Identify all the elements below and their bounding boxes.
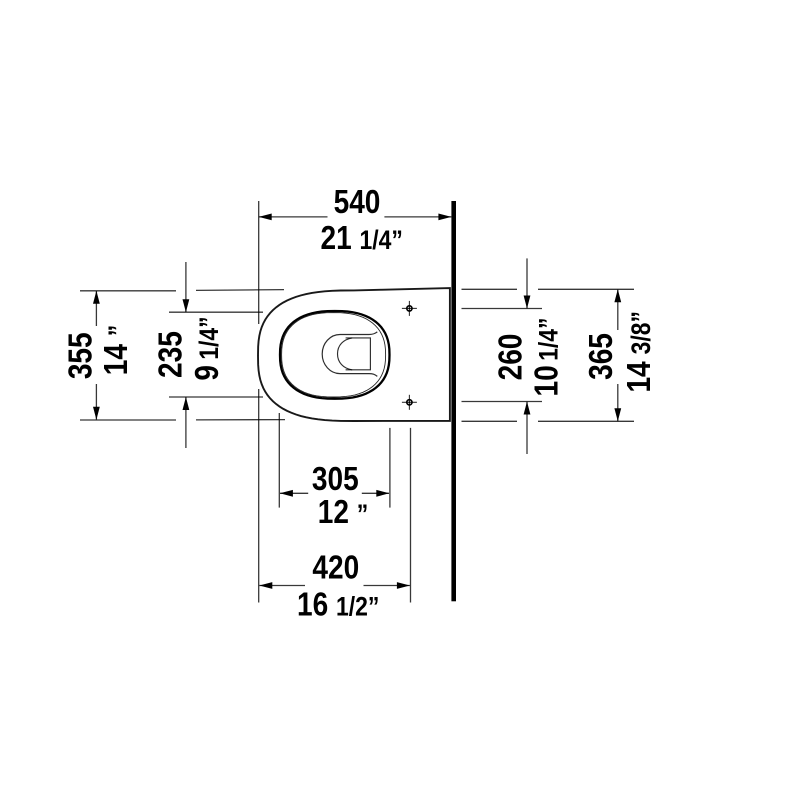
mounting hole top crosshair — [402, 301, 417, 316]
svg-text:540: 540 — [334, 184, 381, 221]
dim 365: bottom extension line segment a — [462, 420, 518, 422]
sump outline with rim flicks — [322, 332, 377, 377]
wall line — [451, 201, 456, 601]
svg-text:14 3/8”: 14 3/8” — [621, 311, 658, 392]
svg-text:21 1/4”: 21 1/4” — [321, 220, 403, 257]
svg-text:9 1/4”: 9 1/4” — [189, 316, 226, 380]
svg-text:235: 235 — [152, 331, 189, 378]
dim 355: bottom arrowhead — [93, 407, 100, 420]
svg-text:260: 260 — [492, 334, 529, 381]
dim 305: dimension line left segment — [280, 492, 308, 494]
svg-text:12 ”: 12 ” — [318, 494, 368, 531]
dim 540: dimension line left segment — [259, 216, 328, 218]
dim 235: bottom extension line — [169, 396, 263, 398]
dim 355: dimension line upper segment — [95, 291, 97, 326]
dim 355: top arrowhead — [93, 291, 100, 304]
dim 420: left arrowhead — [259, 582, 272, 589]
dim 260: bottom extension line — [462, 401, 543, 403]
bowl rim outer outline — [280, 311, 390, 399]
dim 420: dimension line right segment — [364, 585, 410, 587]
dim 305: right extension line — [389, 428, 391, 508]
dim 365: dimension line upper segment — [617, 290, 619, 331]
dim 540: left extension line — [258, 201, 260, 324]
svg-text:10 1/4”: 10 1/4” — [528, 318, 565, 397]
dim 365: dimension line lower segment — [617, 384, 619, 421]
dim 540: right arrowhead — [438, 214, 451, 221]
drain C arc — [338, 338, 353, 370]
dim 260: upper leader line — [526, 258, 528, 308]
dim 420: right extension line — [410, 428, 412, 603]
dim 305: right arrowhead — [376, 490, 389, 497]
dim 365: bottom arrowhead — [614, 408, 621, 421]
dim 365: top arrowhead — [614, 289, 621, 302]
dim 305: left extension line — [278, 413, 280, 508]
svg-text:355: 355 — [62, 332, 99, 379]
toilet outer contour (top view) — [258, 288, 450, 421]
dim 355: top extension line segment a — [80, 290, 176, 292]
dim 540: left arrowhead — [259, 214, 272, 221]
mounting hole bottom crosshair — [402, 395, 417, 410]
dim 260: bottom arrowhead — [524, 402, 531, 415]
dim 540: dimension line right segment — [384, 216, 451, 218]
dim 420: left extension line — [258, 389, 260, 603]
dim 365: bottom extension line segment b — [538, 420, 634, 422]
dim 355: bottom extension line segment b — [196, 419, 285, 421]
dim 235: lower leader line — [185, 397, 187, 448]
dim 260: top extension line — [462, 308, 543, 310]
dim 420: dimension line left segment — [259, 585, 305, 587]
svg-text:14 ”: 14 ” — [98, 325, 135, 375]
dim 355: dimension line lower segment — [95, 384, 97, 420]
svg-text:305: 305 — [312, 461, 359, 498]
dim 355: bottom extension line segment a — [80, 419, 176, 421]
dim 365: top extension line segment b — [538, 288, 634, 290]
dim 305: dimension line right segment — [362, 492, 389, 494]
dim 260: top arrowhead — [524, 296, 531, 309]
dim 355: top extension line segment b — [196, 289, 284, 292]
dim 235: upper leader line — [185, 262, 187, 312]
svg-text:365: 365 — [583, 333, 620, 380]
dim 260: lower leader line — [526, 402, 528, 454]
dim 235: top arrowhead — [183, 299, 190, 312]
drain box outline — [346, 338, 371, 370]
dim 305: left arrowhead — [280, 490, 293, 497]
dim 235: bottom arrowhead — [183, 397, 190, 410]
dim 420: right arrowhead — [397, 582, 410, 589]
dim 235: top extension line — [169, 311, 263, 313]
svg-text:420: 420 — [312, 550, 359, 587]
dim 365: top extension line segment a — [462, 288, 518, 290]
svg-text:16 1/2”: 16 1/2” — [297, 587, 379, 624]
bowl rim inner line — [282, 313, 386, 397]
